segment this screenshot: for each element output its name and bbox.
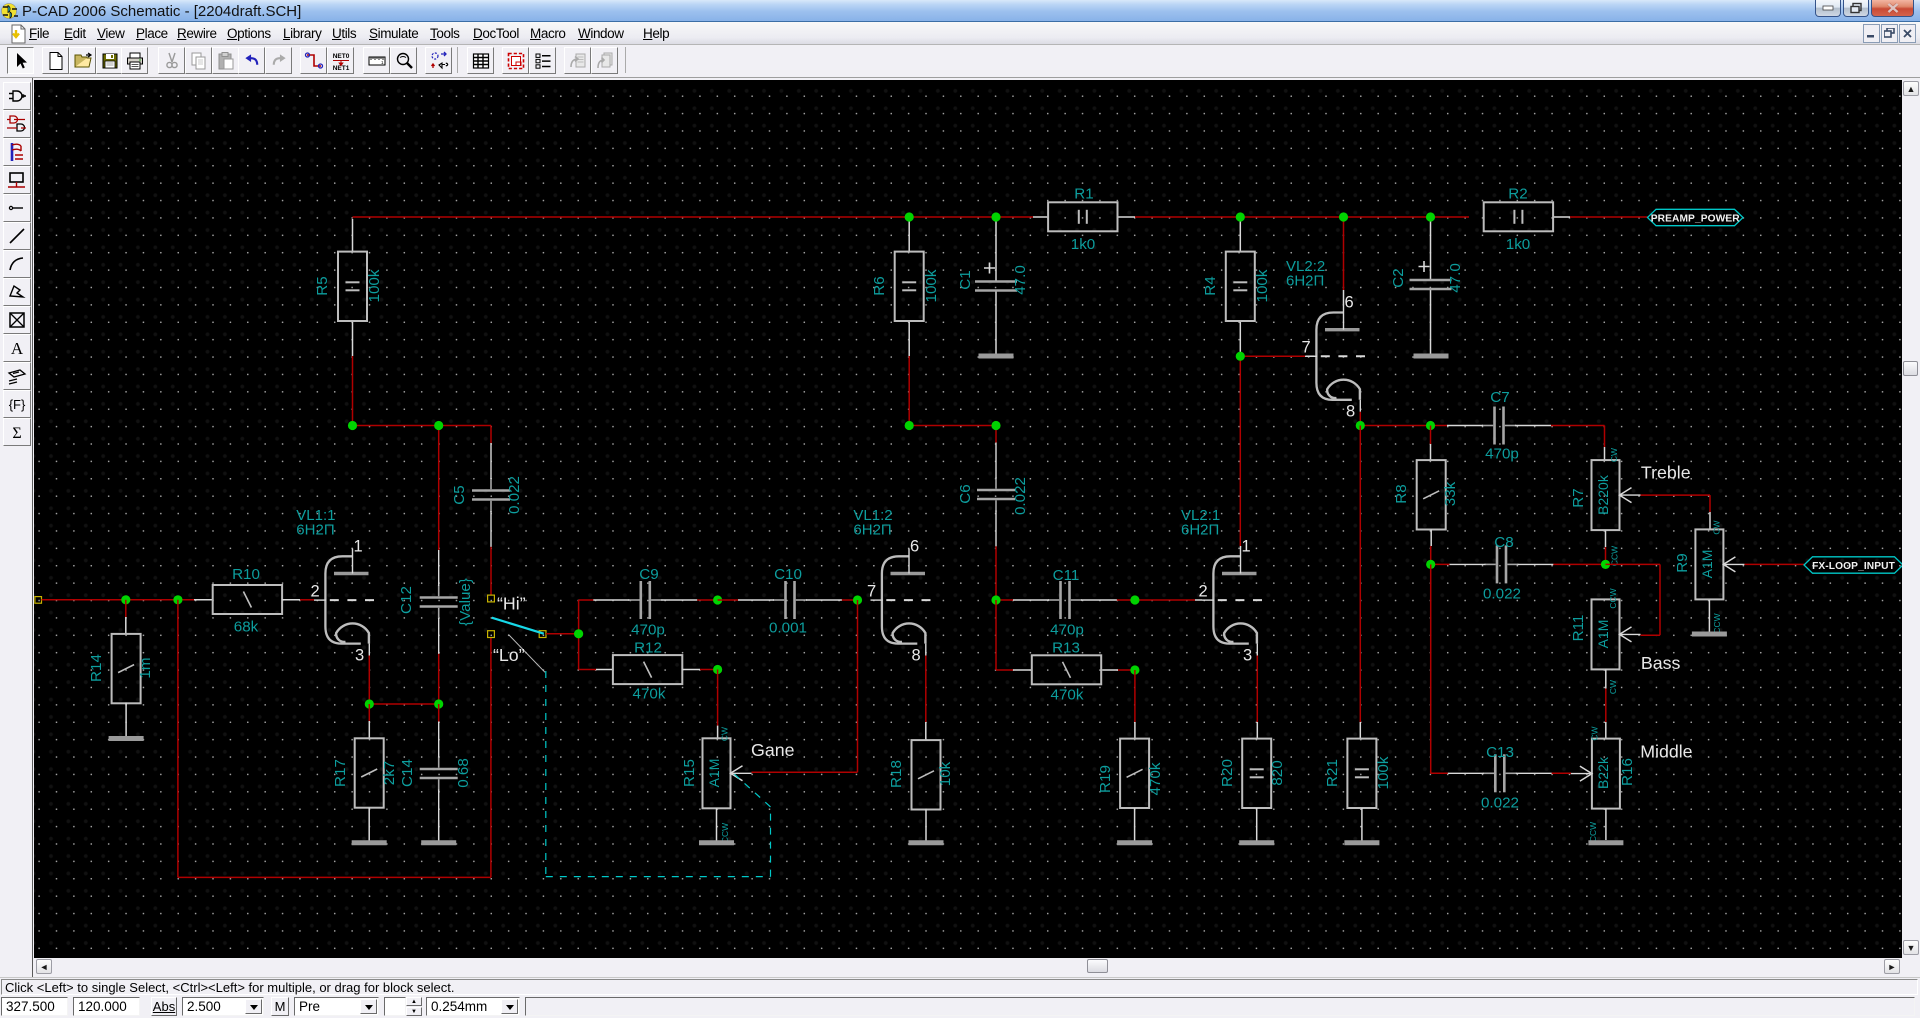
svg-text:R12: R12 xyxy=(634,640,662,657)
wire: B+ top bus xyxy=(353,216,1034,218)
resistor R10 xyxy=(213,585,282,614)
wire: R9 bottom to ground xyxy=(1708,600,1710,632)
resistor R8 xyxy=(1417,460,1446,529)
svg-text:1: 1 xyxy=(1242,538,1251,556)
svg-text:470k: 470k xyxy=(1051,687,1084,704)
switch throw line to Lo xyxy=(509,635,546,673)
svg-text:R18: R18 xyxy=(888,760,905,788)
wire: C8 row xyxy=(1431,563,1450,565)
svg-text:7: 7 xyxy=(1302,339,1311,357)
resistor R12 branch xyxy=(579,669,596,671)
svg-text:C10: C10 xyxy=(774,566,802,583)
wire: bass rheostat loop xyxy=(1606,563,1661,565)
svg-text:47.0: 47.0 xyxy=(1012,265,1029,295)
svg-text:820: 820 xyxy=(1269,760,1286,785)
svg-text:C14: C14 xyxy=(399,759,416,787)
svg-text:C1: C1 xyxy=(957,270,974,289)
svg-text:2k7: 2k7 xyxy=(381,761,398,786)
svg-text:CW: CW xyxy=(1608,680,1618,694)
capacitor C13 xyxy=(1494,754,1497,792)
resistor R2 xyxy=(1484,202,1553,231)
svg-text:Σ: Σ xyxy=(12,425,21,442)
ground below C1 xyxy=(979,354,1014,359)
capacitor C14 xyxy=(420,768,458,771)
svg-text:0.022: 0.022 xyxy=(506,476,523,514)
svg-text:C6: C6 xyxy=(957,484,974,503)
wire: R17 feed xyxy=(368,704,370,721)
potentiometer R11 (Bass) xyxy=(1592,599,1620,669)
svg-text:Middle: Middle xyxy=(1640,742,1692,762)
svg-text:R8: R8 xyxy=(1393,484,1410,503)
svg-text:6: 6 xyxy=(910,538,919,556)
ground below R9 xyxy=(1692,632,1727,637)
menu bar xyxy=(0,22,1920,45)
svg-text:470k: 470k xyxy=(633,686,666,703)
svg-text:1: 1 xyxy=(354,538,363,556)
wire: R11 bottom to Middle pot xyxy=(1605,670,1607,689)
status message bar xyxy=(0,977,1920,995)
ground below R14 xyxy=(109,736,144,741)
junction before VL1:2 grid xyxy=(853,595,862,604)
ground below R17 xyxy=(352,840,387,845)
svg-text:CW: CW xyxy=(1712,520,1722,534)
svg-text:C8: C8 xyxy=(1494,534,1513,551)
junction dots C8 row xyxy=(1426,560,1435,569)
svg-text:3: 3 xyxy=(1243,647,1252,665)
resistor R13 branch xyxy=(995,600,997,670)
svg-text:R7: R7 xyxy=(1570,488,1587,507)
svg-text:CW: CW xyxy=(720,727,730,741)
svg-text:R10: R10 xyxy=(232,566,260,583)
switch Hi/Lo terminals xyxy=(488,595,495,602)
wire: R4 node to VL2:2 grid xyxy=(1240,355,1306,357)
svg-text:CCW: CCW xyxy=(1588,822,1598,842)
svg-text:PREAMP_POWER: PREAMP_POWER xyxy=(1651,214,1740,225)
svg-text:100k: 100k xyxy=(1254,269,1271,302)
capacitor C10 xyxy=(718,599,739,601)
svg-text:R4: R4 xyxy=(1202,276,1219,295)
wire: C11 row to VL2:1 grid xyxy=(996,599,1013,601)
triode VL2:2 xyxy=(1302,294,1366,421)
wire: VL2:2 plate feed xyxy=(1343,217,1345,290)
port PREAMP_POWER xyxy=(1648,209,1744,225)
svg-text:3: 3 xyxy=(355,647,364,665)
svg-text:33k: 33k xyxy=(1442,481,1459,506)
svg-text:“Hi”: “Hi” xyxy=(497,594,526,614)
horizontal scrollbar xyxy=(34,958,1902,975)
svg-text:C9: C9 xyxy=(639,566,658,583)
wire: plate node row VL1:1 xyxy=(353,425,492,427)
svg-text:R15: R15 xyxy=(681,759,698,787)
resistor R1 xyxy=(1048,202,1117,231)
svg-text:R1: R1 xyxy=(1074,186,1093,203)
wire: input net xyxy=(35,597,42,604)
wire: R9 wiper to FX port xyxy=(1745,563,1805,565)
svg-text:{Value}: {Value} xyxy=(457,578,474,626)
resistor R14 xyxy=(112,634,141,703)
svg-text:1m: 1m xyxy=(137,657,154,678)
svg-text:2: 2 xyxy=(1199,583,1208,601)
left tool palette xyxy=(0,78,33,977)
svg-text:R6: R6 xyxy=(871,276,888,295)
ground below C14 xyxy=(421,840,456,845)
svg-text:0.68: 0.68 xyxy=(455,758,472,788)
wire: R4 leads xyxy=(1239,219,1241,252)
vertical scrollbar xyxy=(1902,80,1920,958)
resistor R5 xyxy=(338,252,367,321)
wire: VL2:1 cathode to R20 xyxy=(1256,656,1258,669)
junction dots cathode node VL1:1 xyxy=(365,699,374,708)
capacitor C12 xyxy=(420,596,458,599)
junction dots input xyxy=(121,595,130,604)
capacitor C9 xyxy=(639,581,642,619)
potentiometer R9 (FX level) xyxy=(1695,529,1723,599)
capacitor C11 xyxy=(1059,581,1062,619)
svg-text:A1M: A1M xyxy=(706,759,722,788)
svg-text:CCW: CCW xyxy=(1610,546,1620,566)
svg-text:Gane: Gane xyxy=(751,740,795,760)
capacitor C7 xyxy=(1493,407,1496,445)
svg-text:470k: 470k xyxy=(1147,762,1164,795)
wire: R16 bottom to ground xyxy=(1605,809,1607,840)
svg-text:100k: 100k xyxy=(1375,756,1392,789)
port FX-LOOP_INPUT xyxy=(1804,557,1903,573)
resistor R4 xyxy=(1226,252,1255,321)
svg-text:R16: R16 xyxy=(1619,758,1636,786)
svg-text:0.022: 0.022 xyxy=(1481,795,1519,812)
resistor R20 xyxy=(1242,739,1271,808)
svg-text:0.022: 0.022 xyxy=(1483,586,1521,603)
junction dots on top bus xyxy=(905,212,914,221)
svg-text:470p: 470p xyxy=(1485,446,1519,463)
svg-text:6Н2П: 6Н2П xyxy=(1286,273,1324,290)
bottom controls xyxy=(0,995,1920,1018)
svg-text:NET0: NET0 xyxy=(333,53,350,60)
svg-text:C13: C13 xyxy=(1486,744,1514,761)
svg-text:6Н2П: 6Н2П xyxy=(296,522,334,539)
svg-text:10k: 10k xyxy=(937,761,954,786)
wire: VL2:1 plate to R4 node xyxy=(1239,356,1241,546)
svg-text:100k: 100k xyxy=(923,269,940,302)
ground below R19 xyxy=(1117,840,1152,845)
svg-text:A1M: A1M xyxy=(1699,550,1715,579)
ground below C2 xyxy=(1414,354,1449,359)
toolbar xyxy=(0,45,1920,78)
wire: R15 top xyxy=(717,670,719,726)
wire: VL1:2 plate node xyxy=(909,425,996,427)
svg-text:1k0: 1k0 xyxy=(1071,236,1096,253)
svg-text:470p: 470p xyxy=(1050,622,1084,639)
svg-text:2: 2 xyxy=(311,583,320,601)
triode VL1:1 xyxy=(311,538,375,665)
svg-text:C12: C12 xyxy=(398,586,415,614)
title bar xyxy=(0,0,1920,22)
svg-text:R2: R2 xyxy=(1508,186,1527,203)
svg-text:100k: 100k xyxy=(366,269,383,302)
svg-text:470p: 470p xyxy=(631,622,665,639)
wire: R5 to bus and plate xyxy=(352,219,354,252)
svg-text:Treble: Treble xyxy=(1641,463,1691,483)
svg-text:R13: R13 xyxy=(1052,640,1080,657)
potentiometer R15 (Gane) xyxy=(703,738,731,808)
wire: R14 leads xyxy=(125,600,127,617)
svg-text:{F}: {F} xyxy=(9,397,26,412)
wire: gain pot wiper feed xyxy=(857,600,859,772)
svg-text:R17: R17 xyxy=(332,759,349,787)
svg-text:C2: C2 xyxy=(1390,268,1407,287)
svg-text:CW: CW xyxy=(1609,448,1619,462)
ground below R21 xyxy=(1344,840,1379,845)
switch blade (selected) xyxy=(492,618,544,634)
wire: VL1:1 cathode row xyxy=(368,656,370,705)
resistor R6 xyxy=(895,252,924,321)
wire: lo input loop xyxy=(177,600,179,878)
junction dots plate node VL1:1 xyxy=(348,421,357,430)
potentiometer R7 (Treble) xyxy=(1592,460,1620,530)
capacitor C5 xyxy=(472,489,510,492)
resistor R17 xyxy=(355,738,384,807)
selection dashes (gain net) xyxy=(545,671,547,877)
svg-text:FX-LOOP_INPUT: FX-LOOP_INPUT xyxy=(1812,561,1895,572)
svg-text:R5: R5 xyxy=(314,276,331,295)
svg-text:C5: C5 xyxy=(451,485,468,504)
svg-text:A1M: A1M xyxy=(1595,620,1611,649)
wire: treble wiper to R9 xyxy=(1641,494,1711,496)
wire: R6 leads xyxy=(908,219,910,252)
wire: C14 feed xyxy=(438,704,440,722)
svg-text:0.001: 0.001 xyxy=(769,620,807,637)
capacitor C8 xyxy=(1496,545,1499,583)
svg-text:R21: R21 xyxy=(1324,759,1341,787)
svg-text:A: A xyxy=(11,339,24,358)
svg-text:B22k: B22k xyxy=(1595,756,1611,789)
svg-text:68k: 68k xyxy=(234,619,259,636)
svg-text:6Н2П: 6Н2П xyxy=(1181,522,1219,539)
wire: R19 feed xyxy=(1134,670,1136,722)
svg-text:Bass: Bass xyxy=(1641,653,1681,673)
svg-text:1k0: 1k0 xyxy=(1506,236,1531,253)
capacitor C1 xyxy=(995,217,997,282)
svg-text:R9: R9 xyxy=(1674,553,1691,572)
svg-text:CCW: CCW xyxy=(1712,613,1722,633)
wire: VL1:2 cathode to R18 xyxy=(925,656,927,669)
svg-text:R20: R20 xyxy=(1219,759,1236,787)
svg-text:R14: R14 xyxy=(88,654,105,682)
svg-text:CW: CW xyxy=(1590,726,1600,740)
junction dots VL1:2 plate node xyxy=(905,421,914,430)
svg-text:R19: R19 xyxy=(1097,765,1114,793)
triode VL1:2 xyxy=(867,538,931,665)
resistor R18 xyxy=(912,740,941,809)
svg-text:CCW: CCW xyxy=(1608,588,1618,608)
capacitor C2 xyxy=(1430,217,1432,280)
svg-text:CCW: CCW xyxy=(720,823,730,843)
potentiometer R16 (Middle) xyxy=(1592,739,1620,809)
ground below R20 xyxy=(1239,840,1274,845)
wire: R21 feed (long) xyxy=(1359,426,1361,723)
wire: C13 row xyxy=(1430,564,1432,773)
triode VL2:1 xyxy=(1199,538,1263,665)
svg-text:8: 8 xyxy=(912,647,921,665)
wire: switch common to C9 row xyxy=(546,633,579,635)
svg-text:“Lo”: “Lo” xyxy=(493,645,525,665)
svg-text:47.0: 47.0 xyxy=(1447,263,1464,293)
svg-text:6: 6 xyxy=(1345,294,1354,312)
resistor R21 xyxy=(1347,739,1376,808)
capacitor C6 xyxy=(977,489,1015,492)
ground below R16 xyxy=(1588,840,1623,845)
svg-text:6Н2П: 6Н2П xyxy=(853,522,891,539)
resistor R19 xyxy=(1120,739,1149,808)
svg-text:R11: R11 xyxy=(1570,615,1587,642)
junction dots cathode row xyxy=(1356,421,1365,430)
wire: R8 branch xyxy=(1430,426,1432,445)
wire: R7 bottom to C8 node xyxy=(1605,531,1607,548)
svg-text:7: 7 xyxy=(867,583,876,601)
ground below R15 xyxy=(699,840,734,845)
junction at switch common xyxy=(574,629,583,638)
junction VL2:1 grid node xyxy=(991,595,1000,604)
svg-text:B220k: B220k xyxy=(1595,474,1611,515)
svg-text:C11: C11 xyxy=(1053,567,1080,584)
svg-text:8: 8 xyxy=(1346,403,1355,421)
svg-text:C7: C7 xyxy=(1490,389,1509,406)
wire: VL2:2 cathode row xyxy=(1359,412,1361,426)
ground below R18 xyxy=(909,840,944,845)
wire: C12 branch xyxy=(438,426,440,551)
svg-text:0.022: 0.022 xyxy=(1012,477,1029,515)
